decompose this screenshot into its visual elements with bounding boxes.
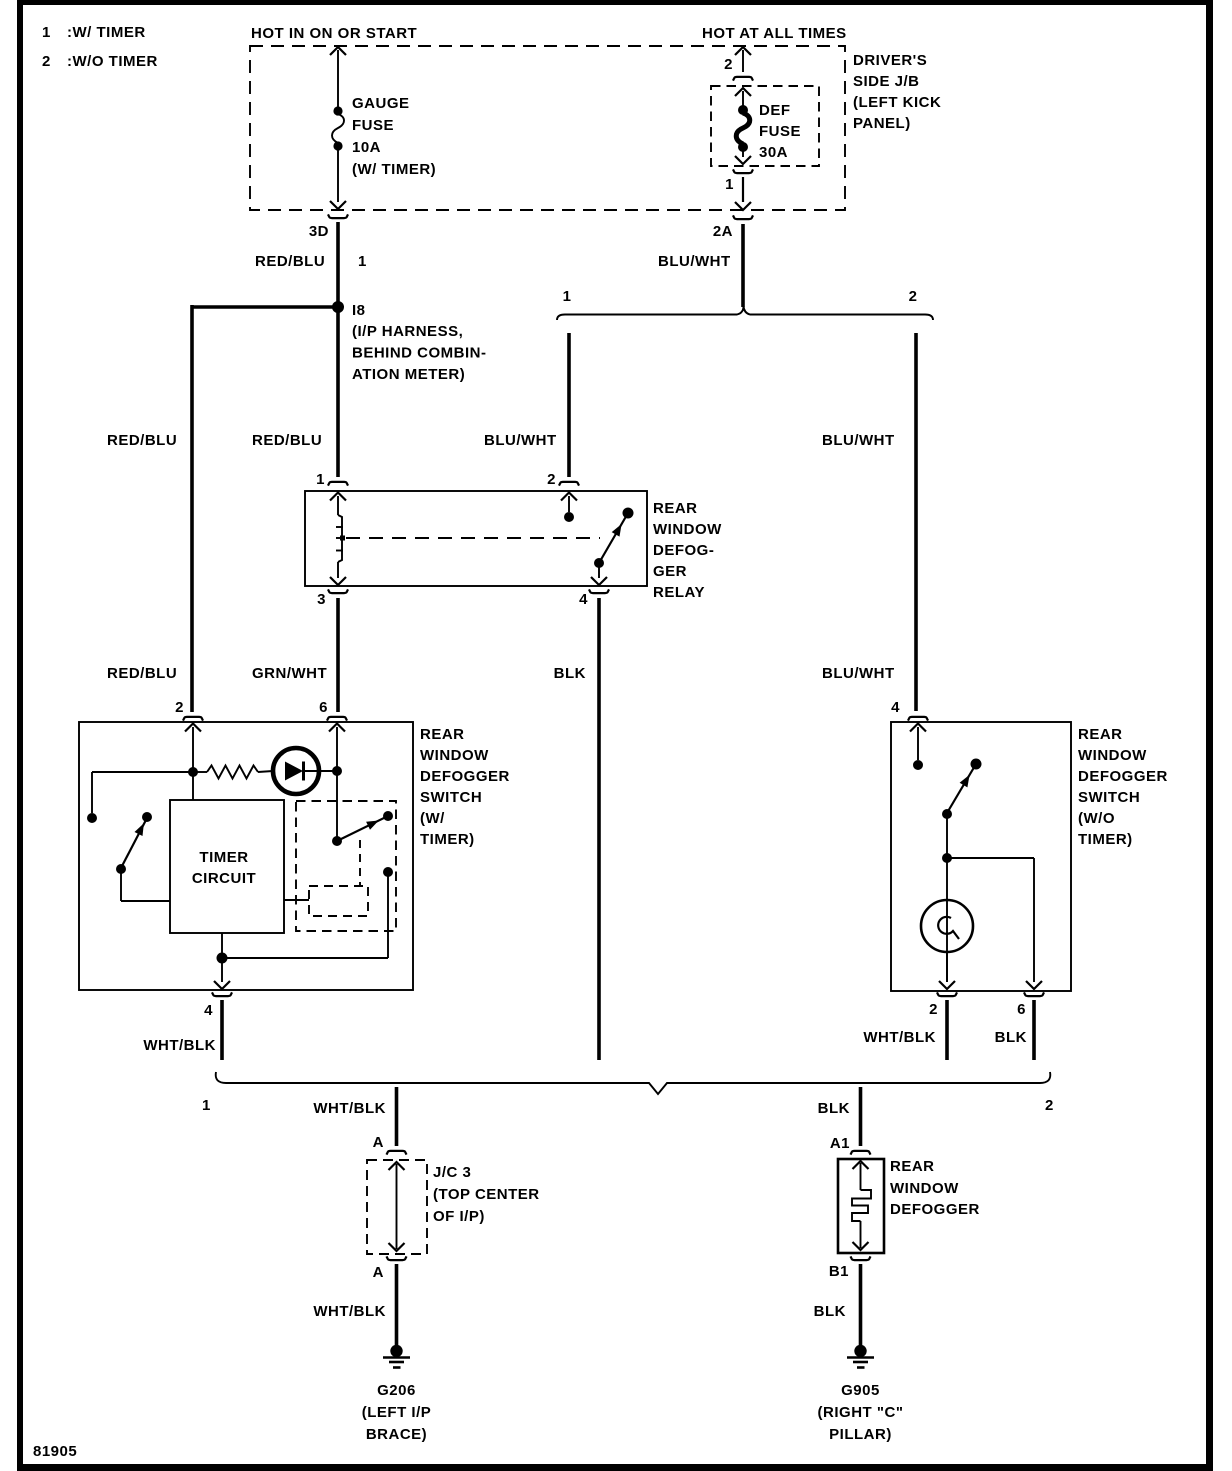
svg-text:DEFOG-: DEFOG- [653, 542, 714, 559]
wire BLK to ground G905 [859, 1264, 863, 1346]
switch S1 pin 2 internal wire [185, 724, 201, 732]
svg-text:2: 2 [42, 53, 51, 70]
svg-text:6: 6 [319, 699, 328, 716]
relay fixed contact from pin 2 [561, 493, 577, 501]
svg-text:PANEL): PANEL) [853, 115, 911, 132]
svg-text:DEFOGGER: DEFOGGER [420, 768, 510, 785]
relay pin 3 connector [328, 589, 348, 593]
junction connector J/C3 dashed box [367, 1160, 427, 1254]
wire GRN/WHT relay pin3 to switch pin 6 [336, 598, 340, 712]
connector B1 [851, 1256, 871, 1260]
svg-text:TIMER): TIMER) [1078, 831, 1133, 848]
svg-text:(RIGHT "C": (RIGHT "C" [818, 1404, 904, 1421]
heater element REAR WINDOW DEFOGGER box [838, 1159, 884, 1253]
switch S1 pin 6 internal wire [329, 724, 345, 732]
svg-text:CIRCUIT: CIRCUIT [192, 870, 256, 887]
svg-text:BLU/WHT: BLU/WHT [658, 253, 731, 270]
svg-text:G905: G905 [841, 1382, 880, 1399]
svg-text:RED/BLU: RED/BLU [107, 665, 177, 682]
svg-text:2: 2 [1045, 1097, 1054, 1114]
svg-text:BLK: BLK [814, 1303, 846, 1320]
ground G905 [854, 1345, 866, 1357]
switch S2 pin 4 internal wire [910, 724, 926, 732]
svg-text:4: 4 [579, 591, 588, 608]
wire gauge-fuse top with arrow [330, 47, 346, 55]
connector A bottom of J/C3 [387, 1256, 407, 1260]
svg-text:WINDOW: WINDOW [1078, 747, 1147, 764]
svg-text:2: 2 [724, 56, 733, 73]
svg-text:SIDE J/B: SIDE J/B [853, 73, 920, 90]
wire I8 horizontal [192, 305, 338, 309]
DEF fuse dashed box [711, 86, 819, 166]
svg-text:(W/ TIMER): (W/ TIMER) [352, 161, 436, 178]
wire BLK from S2 pin 6 [1032, 1000, 1036, 1060]
svg-text:2: 2 [929, 1001, 938, 1018]
svg-text:2: 2 [547, 471, 556, 488]
svg-text:REAR: REAR [420, 726, 465, 743]
switch S1 latch dashed box [296, 801, 396, 931]
junction block J/B dashed box [250, 46, 845, 210]
svg-text:RELAY: RELAY [653, 584, 705, 601]
svg-text:10A: 10A [352, 139, 381, 156]
switch S1 output node [383, 867, 393, 877]
svg-text:BRACE): BRACE) [366, 1426, 427, 1443]
relay internal dashed link [346, 537, 600, 539]
svg-text:RED/BLU: RED/BLU [252, 432, 322, 449]
svg-text:81905: 81905 [33, 1443, 77, 1460]
bus brace collector [216, 1072, 1051, 1094]
svg-text:BEHIND COMBIN-: BEHIND COMBIN- [352, 345, 487, 362]
svg-text:2: 2 [909, 288, 918, 305]
fuse F1 GAUGE 10A [333, 106, 342, 115]
wire RED/BLU I8 to relay pin 1 [336, 307, 340, 477]
wire WHT/BLK from S2 pin 2 [945, 1000, 949, 1060]
pin 2 connector to DEF fuse [735, 47, 751, 55]
svg-text:PILLAR): PILLAR) [829, 1426, 892, 1443]
svg-text:BLU/WHT: BLU/WHT [822, 432, 895, 449]
wire below gauge fuse with arrow [337, 150, 339, 202]
svg-text:6: 6 [1017, 1001, 1026, 1018]
svg-text:J/C 3: J/C 3 [433, 1164, 471, 1181]
svg-text:B1: B1 [829, 1263, 849, 1280]
svg-text:DEF: DEF [759, 102, 791, 119]
pin 1 connector below DEF fuse [733, 169, 753, 173]
switch S1 left contact wire [92, 771, 193, 773]
svg-text:DRIVER'S: DRIVER'S [853, 52, 927, 69]
svg-text:(W/: (W/ [420, 810, 445, 827]
fuse F2 DEF 30A [735, 88, 751, 96]
svg-text:WINDOW: WINDOW [653, 521, 722, 538]
splice split of BLU/WHT wire [557, 306, 933, 320]
svg-text:30A: 30A [759, 144, 788, 161]
svg-text:1: 1 [202, 1097, 211, 1114]
svg-text:FUSE: FUSE [352, 117, 394, 134]
svg-text:TIMER: TIMER [199, 849, 248, 866]
switch S1 REAR WINDOW DEFOGGER SWITCH (W/ TIMER) box [79, 722, 413, 990]
switch S2 REAR WINDOW DEFOGGER SWITCH (W/O TIMER) box [891, 722, 1071, 991]
svg-text:4: 4 [204, 1002, 213, 1019]
svg-text:1: 1 [316, 471, 325, 488]
svg-text:BLK: BLK [818, 1100, 850, 1117]
svg-text:SWITCH: SWITCH [420, 789, 482, 806]
page border frame [17, 0, 23, 1471]
wire WHT/BLK to ground [395, 1264, 399, 1346]
svg-text:REAR: REAR [890, 1158, 935, 1175]
svg-text:2: 2 [175, 699, 184, 716]
switch S1 pin 4 connector [212, 992, 232, 996]
timer circuit box [170, 800, 284, 933]
svg-text:DEFOGGER: DEFOGGER [890, 1201, 980, 1218]
svg-text:REAR: REAR [653, 500, 698, 517]
relay pin 4 connector [589, 589, 609, 593]
wire BLK relay pin4 down [597, 598, 601, 1060]
wire RED/BLU 3D to I8 [336, 222, 340, 307]
svg-text:(LEFT KICK: (LEFT KICK [853, 94, 941, 111]
svg-text:WHT/BLK: WHT/BLK [313, 1100, 386, 1117]
switch S1 latch arm [337, 816, 388, 841]
svg-text:3: 3 [317, 591, 326, 608]
svg-text:G206: G206 [377, 1382, 416, 1399]
svg-text:GRN/WHT: GRN/WHT [252, 665, 327, 682]
switch S2 internal wires [946, 814, 948, 858]
switch S1 manual arm [121, 818, 147, 868]
svg-text:3D: 3D [309, 223, 329, 240]
svg-text:GAUGE: GAUGE [352, 95, 410, 112]
wire BLU/WHT 2A down [741, 224, 745, 307]
svg-text::W/O TIMER: :W/O TIMER [67, 53, 158, 70]
svg-text:A: A [373, 1264, 384, 1281]
svg-text:FUSE: FUSE [759, 123, 801, 140]
switch S2 pin 6 connector [1024, 992, 1044, 996]
switch S2 arm [947, 764, 976, 813]
wire RED/BLU left branch down [190, 305, 194, 712]
svg-text:TIMER): TIMER) [420, 831, 475, 848]
svg-text:RED/BLU: RED/BLU [107, 432, 177, 449]
svg-text:HOT AT ALL TIMES: HOT AT ALL TIMES [702, 25, 847, 42]
svg-text:DEFOGGER: DEFOGGER [1078, 768, 1168, 785]
svg-text:(TOP CENTER: (TOP CENTER [433, 1186, 540, 1203]
svg-text:1: 1 [358, 253, 367, 270]
wire WHT/BLK from S1 pin 4 [220, 1000, 224, 1060]
relay U1 REAR WINDOW DEFOGGER RELAY box [305, 491, 647, 586]
relay switch arm [599, 513, 628, 563]
relay coil [330, 493, 346, 501]
svg-text:WHT/BLK: WHT/BLK [313, 1303, 386, 1320]
svg-text:RED/BLU: RED/BLU [255, 253, 325, 270]
LED indicator D1 [273, 748, 319, 794]
svg-text:4: 4 [891, 699, 900, 716]
wire BLU/WHT split right branch [914, 333, 918, 711]
svg-text:BLK: BLK [995, 1029, 1027, 1046]
ground G206 [390, 1345, 402, 1357]
wire BLU/WHT split left branch [567, 333, 571, 477]
switch S2 pin 2 connector [937, 992, 957, 996]
svg-text:1: 1 [563, 288, 572, 305]
svg-text:WHT/BLK: WHT/BLK [143, 1037, 216, 1054]
svg-text:BLU/WHT: BLU/WHT [484, 432, 557, 449]
svg-text:WINDOW: WINDOW [890, 1180, 959, 1197]
svg-text:REAR: REAR [1078, 726, 1123, 743]
svg-text:GER: GER [653, 563, 687, 580]
node I8 junction [332, 301, 344, 313]
svg-text:I8: I8 [352, 302, 366, 319]
svg-text:(LEFT I/P: (LEFT I/P [362, 1404, 432, 1421]
svg-text:BLU/WHT: BLU/WHT [822, 665, 895, 682]
connector 3D [328, 214, 348, 218]
svg-text::W/ TIMER: :W/ TIMER [67, 24, 146, 41]
connector 2A [733, 215, 753, 219]
svg-text:SWITCH: SWITCH [1078, 789, 1140, 806]
svg-text:WHT/BLK: WHT/BLK [863, 1029, 936, 1046]
svg-text:A: A [373, 1134, 384, 1151]
wire BLK to rear defogger [859, 1087, 863, 1146]
svg-text:BLK: BLK [554, 665, 586, 682]
svg-text:A1: A1 [830, 1135, 850, 1152]
svg-text:HOT IN ON OR START: HOT IN ON OR START [251, 25, 417, 42]
svg-text:ATION METER): ATION METER) [352, 366, 465, 383]
lamp L1 illumination bulb [921, 900, 973, 952]
svg-text:1: 1 [725, 176, 734, 193]
latch solenoid dashed box [309, 886, 368, 916]
svg-text:2A: 2A [713, 223, 733, 240]
wire WHT/BLK to J/C3 [395, 1087, 399, 1146]
svg-text:(W/O: (W/O [1078, 810, 1115, 827]
svg-text:WINDOW: WINDOW [420, 747, 489, 764]
svg-text:(I/P HARNESS,: (I/P HARNESS, [352, 323, 463, 340]
svg-text:1: 1 [42, 24, 51, 41]
resistor R1 [196, 771, 207, 773]
svg-text:OF I/P): OF I/P) [433, 1208, 485, 1225]
